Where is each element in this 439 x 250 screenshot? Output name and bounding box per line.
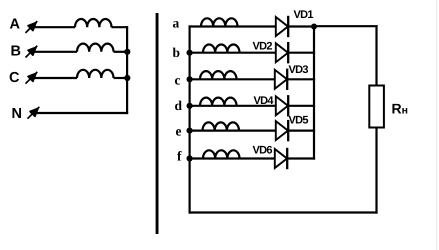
svg-text:c: c bbox=[175, 73, 181, 88]
svg-text:f: f bbox=[177, 149, 182, 164]
transformer core divider bbox=[156, 13, 159, 234]
wire e bbox=[189, 130, 277, 132]
diode VD6 bbox=[275, 148, 287, 169]
winding secondary c bbox=[200, 71, 237, 79]
winding secondary b bbox=[203, 44, 240, 52]
wire e diode to bus bbox=[288, 130, 315, 132]
diode VD3 bbox=[275, 69, 287, 90]
svg-text:VD3: VD3 bbox=[289, 64, 309, 76]
svg-text:d: d bbox=[175, 98, 183, 113]
diode VD4 bbox=[276, 95, 288, 116]
wire load branch lower bbox=[375, 128, 377, 214]
winding primary A bbox=[75, 19, 112, 27]
wire d diode to bus bbox=[288, 105, 315, 107]
wire a diode to node bbox=[288, 25, 314, 27]
svg-text:A: A bbox=[10, 17, 21, 33]
node C junction dot bbox=[124, 75, 130, 81]
wire node to load bbox=[314, 25, 378, 27]
node c junction dot bbox=[187, 76, 193, 82]
terminal arrow C bbox=[26, 72, 38, 84]
svg-text:b: b bbox=[173, 45, 181, 60]
svg-text:VD5: VD5 bbox=[289, 115, 309, 127]
page right edge faint border bbox=[436, 0, 438, 250]
diode VD5 bbox=[276, 120, 288, 141]
wire C bbox=[34, 77, 77, 79]
winding secondary a bbox=[201, 18, 238, 26]
wire f bbox=[189, 157, 276, 159]
svg-text:VD4: VD4 bbox=[254, 95, 275, 107]
winding secondary f bbox=[203, 150, 240, 158]
svg-text:VD1: VD1 bbox=[294, 9, 314, 21]
wire f diode to bus bbox=[287, 157, 315, 159]
terminal arrow N bbox=[28, 107, 40, 119]
wire B bbox=[34, 51, 77, 53]
node e junction dot bbox=[187, 128, 193, 134]
winding primary C bbox=[77, 70, 114, 78]
diode VD1 bbox=[276, 16, 288, 37]
svg-text:e: e bbox=[176, 124, 182, 139]
wire A to bus bbox=[112, 26, 129, 28]
wire load branch upper bbox=[375, 25, 377, 85]
wire b diode to bus bbox=[288, 52, 315, 54]
load resistor Rн bbox=[369, 86, 384, 128]
svg-text:B: B bbox=[11, 44, 21, 60]
secondary bus wire (left) bbox=[189, 25, 191, 213]
svg-text:C: C bbox=[9, 70, 20, 86]
winding secondary d bbox=[200, 98, 237, 106]
wire c diode to bus bbox=[287, 78, 315, 80]
wire C to bus bbox=[114, 77, 129, 79]
bottom return wire bbox=[189, 211, 378, 213]
node f junction dot bbox=[187, 155, 193, 161]
wire B to bus bbox=[114, 51, 129, 53]
node b junction dot bbox=[187, 50, 193, 56]
svg-text:VD2: VD2 bbox=[253, 41, 273, 53]
terminal arrow A bbox=[26, 21, 38, 33]
wire d bbox=[189, 105, 277, 107]
svg-text:VD6: VD6 bbox=[253, 145, 273, 157]
node B junction dot bbox=[124, 49, 130, 55]
svg-text:Rн: Rн bbox=[392, 101, 408, 117]
cathode bus wire (right) bbox=[313, 27, 315, 160]
wire b bbox=[189, 52, 277, 54]
svg-text:a: a bbox=[173, 16, 180, 31]
svg-text:N: N bbox=[12, 106, 22, 122]
wire N bbox=[36, 112, 128, 114]
terminal arrow B bbox=[26, 46, 38, 58]
primary bus wire bbox=[126, 26, 128, 114]
node VD1 junction dot bbox=[311, 24, 317, 30]
diode VD2 bbox=[276, 42, 288, 63]
winding primary B bbox=[77, 44, 114, 52]
wire c bbox=[189, 78, 276, 80]
wire A bbox=[34, 26, 75, 28]
wire a bbox=[189, 25, 277, 27]
node d junction dot bbox=[187, 103, 193, 109]
winding secondary e bbox=[203, 122, 240, 130]
